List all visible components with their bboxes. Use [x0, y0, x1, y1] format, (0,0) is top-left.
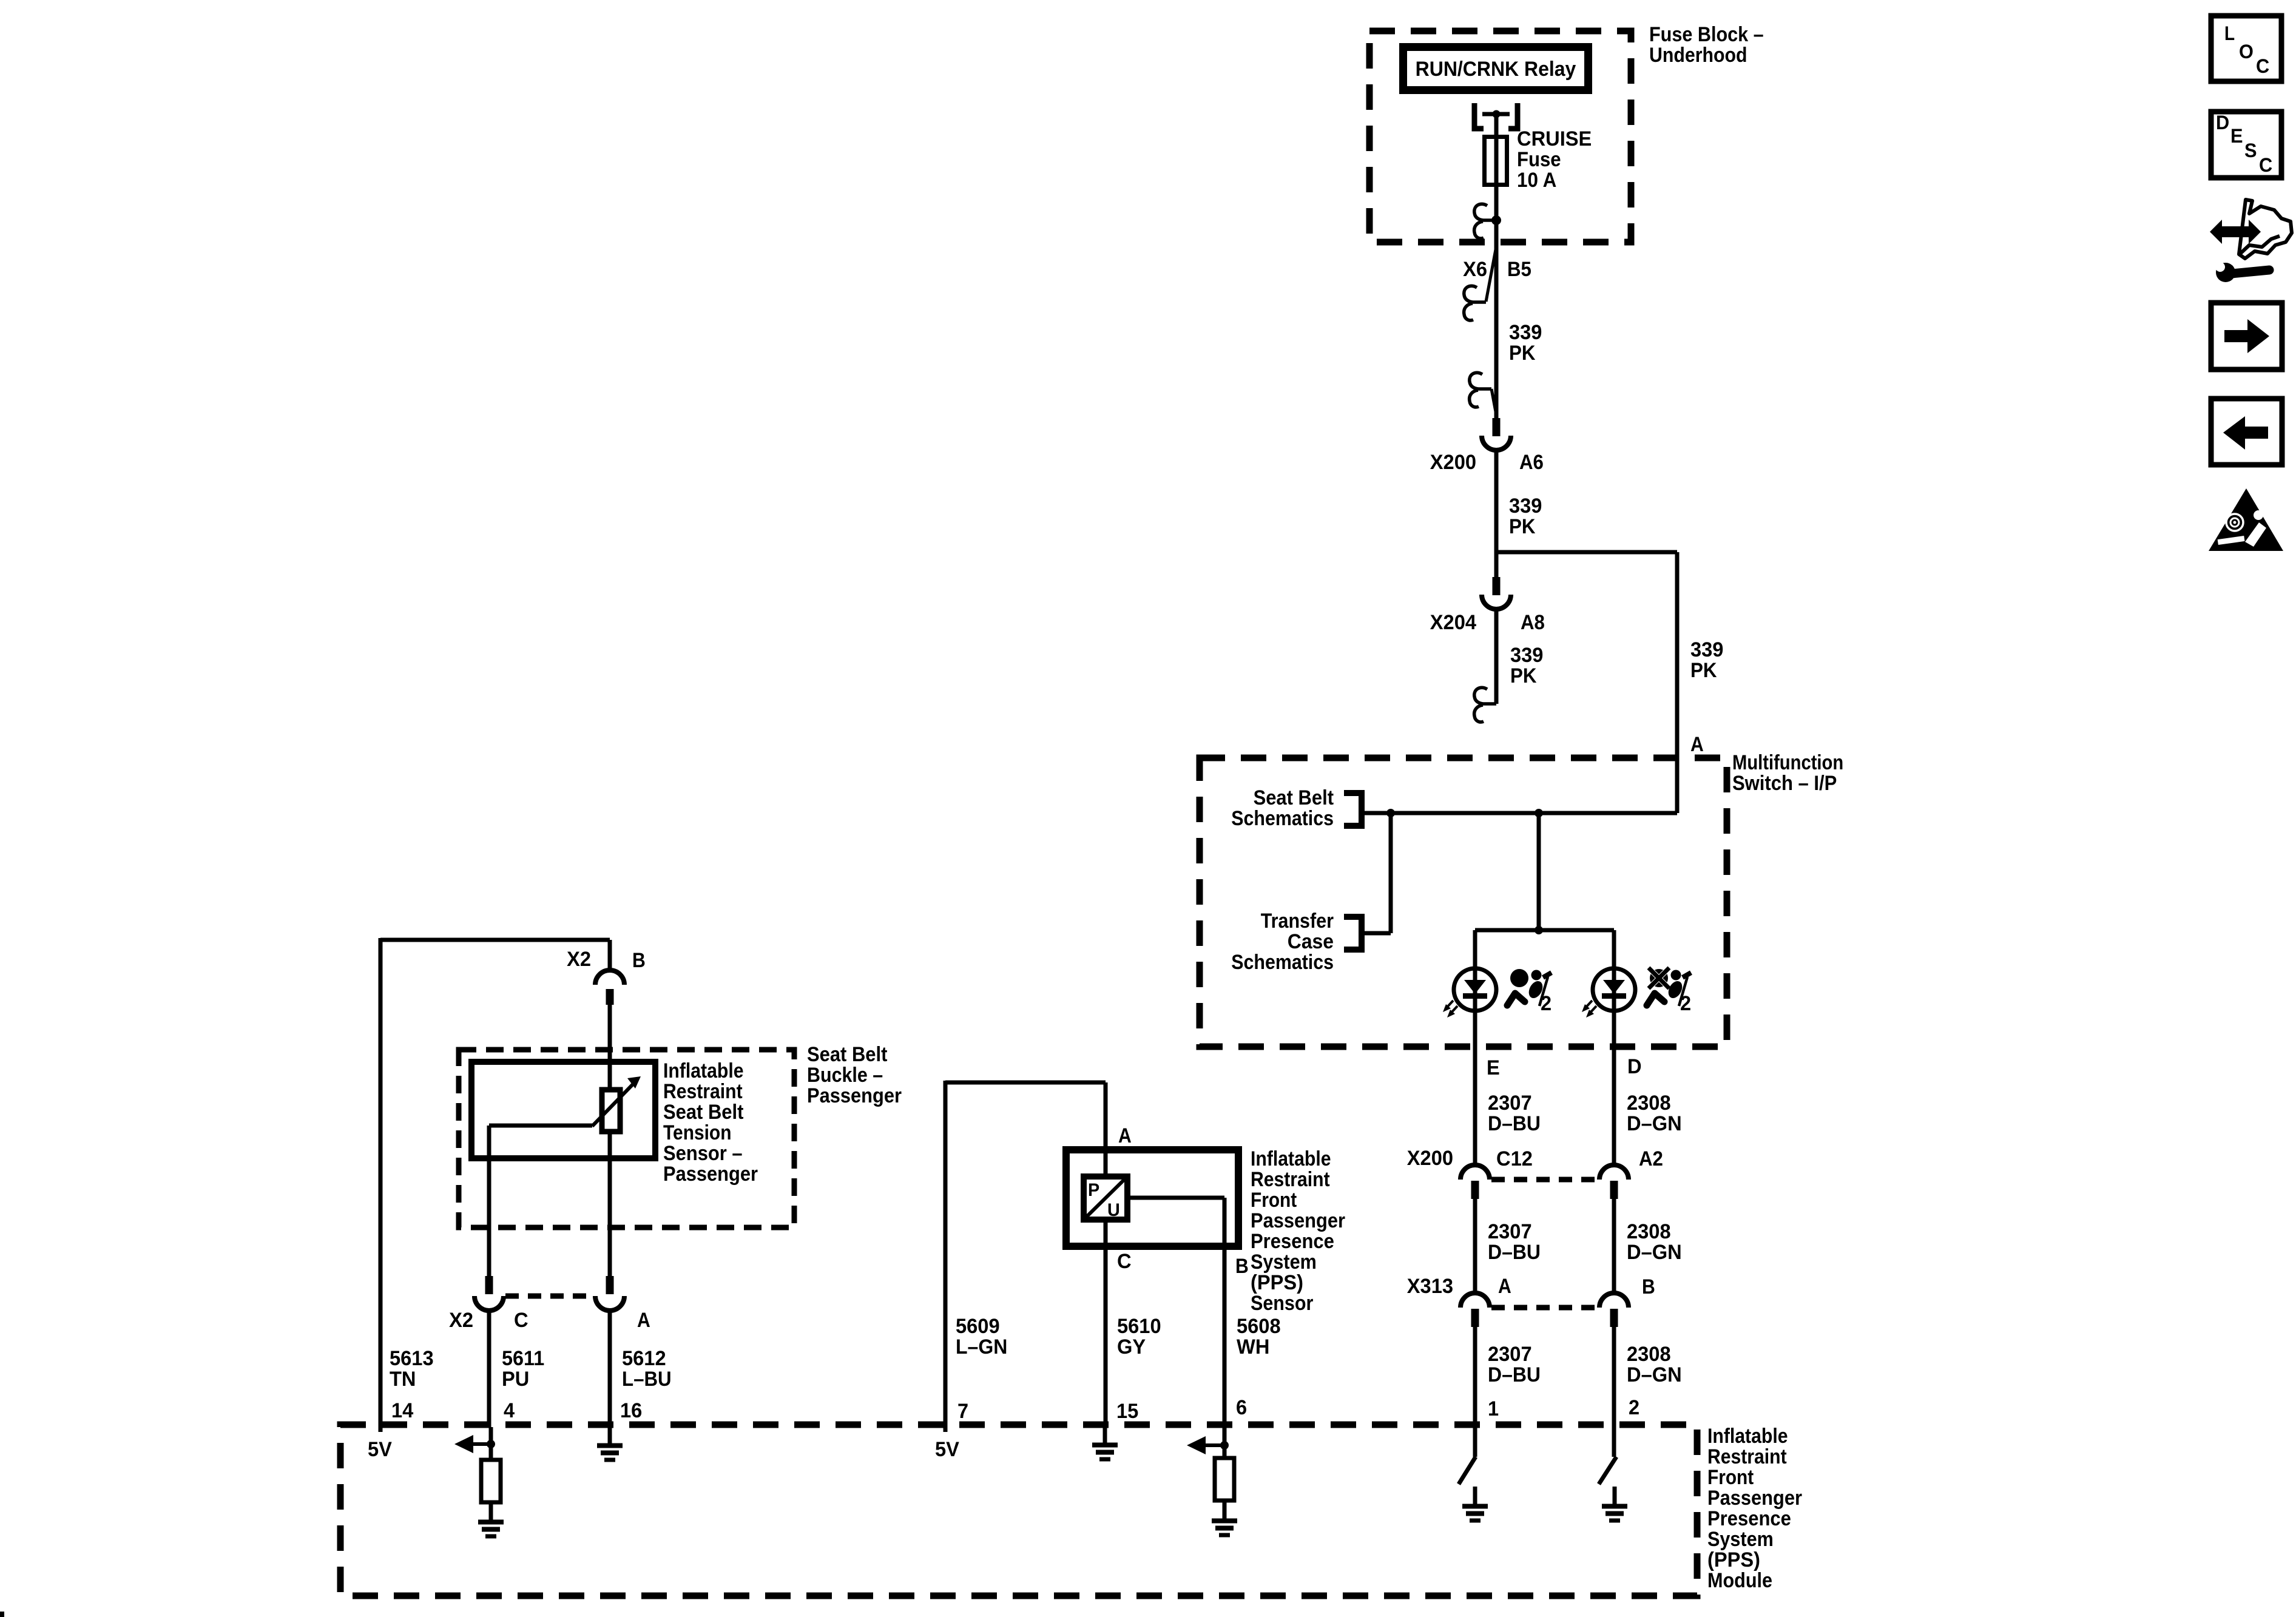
svg-text:339: 339 [1509, 495, 1542, 518]
svg-text:System: System [1707, 1528, 1774, 1551]
svg-text:A6: A6 [1519, 451, 1544, 474]
svg-text:Sensor –: Sensor – [663, 1142, 743, 1165]
svg-text:B: B [632, 949, 646, 972]
svg-text:339: 339 [1509, 321, 1542, 344]
wire to LED 2 [1612, 930, 1616, 1166]
svg-text:E: E [1487, 1056, 1500, 1079]
fuse block - underhood box [1369, 23, 1764, 242]
svg-text:PK: PK [1690, 659, 1717, 682]
ground pin 4 branch [478, 1502, 504, 1536]
svg-text:Seat Belt: Seat Belt [1254, 786, 1334, 809]
svg-text:Front: Front [1707, 1466, 1754, 1489]
svg-text:Transfer: Transfer [1261, 910, 1334, 933]
wire 5609 L-GN loop [945, 1081, 1106, 1427]
svg-text:5608: 5608 [1237, 1315, 1281, 1338]
node pin 6 junction with arrow [1187, 1427, 1229, 1458]
svg-text:Tension: Tension [663, 1121, 732, 1144]
airbag off icon [1647, 968, 1691, 1015]
svg-text:1: 1 [1488, 1397, 1499, 1420]
connector X313 link [1491, 1305, 1598, 1311]
svg-text:C: C [514, 1309, 528, 1332]
svg-text:5609: 5609 [956, 1315, 1000, 1338]
svg-text:X6: X6 [1463, 258, 1487, 281]
wire relay to fuse [1494, 115, 1499, 136]
svg-text:14: 14 [391, 1399, 413, 1422]
svg-text:Passenger: Passenger [1707, 1487, 1802, 1510]
svg-text:L: L [2224, 22, 2235, 44]
pressure transducer P/U [1084, 1176, 1127, 1220]
svg-text:10 A: 10 A [1517, 169, 1556, 192]
svg-text:X2: X2 [567, 948, 591, 971]
svg-text:D–BU: D–BU [1488, 1241, 1541, 1264]
svg-text:2308: 2308 [1627, 1092, 1671, 1115]
wire 5610 GY [1106, 1220, 1161, 1427]
inflatable restraint seat belt tension sensor - passenger box [471, 1059, 758, 1186]
svg-text:L–BU: L–BU [622, 1368, 672, 1391]
svg-text:A8: A8 [1521, 611, 1545, 634]
svg-text:2: 2 [1541, 992, 1551, 1015]
in-line connector X2 pin B [567, 948, 646, 1005]
pin label B pps sensor [1235, 1255, 1249, 1278]
pin label 2 [1629, 1396, 1639, 1419]
clip terminal above X200 [1470, 373, 1497, 418]
svg-text:5613: 5613 [390, 1347, 434, 1370]
svg-text:RUN/CRNK Relay: RUN/CRNK Relay [1416, 58, 1576, 81]
arrow left icon [2211, 399, 2282, 465]
svg-text:D–GN: D–GN [1627, 1363, 1682, 1386]
svg-text:15: 15 [1116, 1400, 1138, 1423]
svg-text:5612: 5612 [622, 1347, 666, 1370]
svg-text:D–GN: D–GN [1627, 1112, 1682, 1135]
pin label 7 [957, 1400, 968, 1423]
relay RUN/CRNK Relay [1403, 47, 1589, 90]
svg-text:O: O [2239, 41, 2254, 62]
svg-text:Case: Case [1288, 930, 1334, 953]
svg-text:Seat Belt: Seat Belt [663, 1101, 743, 1124]
pin label A multifunction switch [1690, 733, 1704, 756]
svg-text:D: D [1627, 1055, 1642, 1078]
svg-text:Buckle –: Buckle – [807, 1064, 883, 1087]
svg-text:2308: 2308 [1627, 1220, 1671, 1243]
page artifact dot [0, 1612, 4, 1617]
svg-text:B5: B5 [1507, 258, 1531, 281]
svg-text:C: C [2259, 154, 2272, 176]
pin label 4 [504, 1399, 515, 1422]
pin label 6 [1236, 1396, 1247, 1419]
svg-text:Inflatable: Inflatable [1707, 1425, 1788, 1448]
svg-text:Presence: Presence [1707, 1507, 1791, 1530]
svg-text:PU: PU [502, 1368, 529, 1391]
svg-text:D–GN: D–GN [1627, 1241, 1682, 1264]
wire 5613 TN loop [380, 938, 610, 1427]
svg-text:PK: PK [1510, 664, 1537, 687]
pin label D [1627, 1055, 1642, 1078]
resistor pin 4 pull [481, 1460, 501, 1520]
connector X200 link [1491, 1177, 1598, 1183]
wire 2307 D-BU segment 2 [1475, 1199, 1541, 1294]
svg-text:TN: TN [390, 1368, 416, 1391]
svg-text:B: B [1642, 1275, 1655, 1298]
relay terminal bracket [1474, 103, 1518, 129]
svg-text:A: A [1498, 1275, 1511, 1298]
svg-text:Sensor: Sensor [1251, 1292, 1313, 1315]
wire 5611 PU [489, 1309, 544, 1427]
svg-text:E: E [2230, 125, 2243, 147]
svg-text:PK: PK [1509, 515, 1536, 538]
svg-text:6: 6 [1236, 1396, 1247, 1419]
node branch to multifunction switch [1496, 550, 1677, 555]
switch contact pin 2 [1599, 1457, 1616, 1484]
airbag on icon [1507, 969, 1551, 1015]
svg-text:PK: PK [1509, 342, 1536, 365]
in-line connector X313 pin A [1407, 1275, 1511, 1327]
transfer case schematics bracket [1231, 910, 1362, 974]
pin label 1 [1488, 1397, 1499, 1420]
svg-text:D–BU: D–BU [1488, 1112, 1541, 1135]
svg-text:S: S [2244, 140, 2257, 161]
wire fuse to fuse block exit [1494, 187, 1499, 245]
svg-text:X204: X204 [1430, 611, 1476, 634]
pin label 16 [620, 1399, 642, 1422]
fuse CRUISE Fuse 10 A [1485, 127, 1592, 192]
svg-text:A2: A2 [1639, 1147, 1663, 1170]
svg-text:X313: X313 [1407, 1275, 1453, 1298]
svg-text:C: C [1117, 1250, 1132, 1273]
ground pin 15 branch [1092, 1425, 1118, 1459]
pin label A pps sensor [1118, 1124, 1132, 1147]
svg-text:Restraint: Restraint [1707, 1445, 1787, 1468]
wire to LED 1 [1473, 930, 1477, 1166]
clip terminal wire end [1474, 687, 1496, 722]
ground pin 1 branch [1462, 1487, 1488, 1521]
wire sensor internal [489, 1126, 592, 1276]
svg-text:System: System [1251, 1251, 1317, 1274]
svg-text:Fuse Block –: Fuse Block – [1649, 23, 1764, 46]
ground pin 16 branch [597, 1426, 623, 1460]
svg-text:A: A [637, 1309, 650, 1332]
net 5V pin 7 [935, 1425, 959, 1461]
wire 5609 L-GN label [956, 1315, 1007, 1359]
svg-text:X200: X200 [1407, 1147, 1453, 1170]
inflatable restraint front passenger presence system sensor box [1066, 1147, 1345, 1315]
svg-text:Schematics: Schematics [1231, 951, 1334, 974]
pin label 14 [391, 1399, 413, 1422]
clip terminal inside fuse block [1474, 204, 1501, 238]
svg-text:2307: 2307 [1488, 1092, 1532, 1115]
in-line connector X200 pin A2 [1599, 1147, 1663, 1199]
net 5V pin 14 [368, 1425, 392, 1461]
svg-text:Switch – I/P: Switch – I/P [1732, 772, 1837, 795]
arrow right icon [2211, 303, 2282, 370]
svg-text:B: B [1235, 1255, 1249, 1278]
wire 5608 WH label [1237, 1315, 1281, 1359]
node pin 4 junction with arrow [454, 1427, 495, 1460]
svg-text:CRUISE: CRUISE [1517, 127, 1592, 150]
svg-text:Inflatable: Inflatable [1251, 1147, 1331, 1170]
seat belt buckle - passenger box [459, 1043, 902, 1227]
wire 5612 lower [608, 1132, 612, 1276]
in-line connector X2 pin C [449, 1276, 528, 1332]
connector X6 pin B5 [1463, 246, 1531, 320]
svg-text:Underhood: Underhood [1649, 44, 1747, 67]
wire 2308 D-GN segment 1 [1627, 1092, 1682, 1135]
svg-text:16: 16 [620, 1399, 642, 1422]
multifunction switch - I/P box [1200, 751, 1843, 1047]
ground pin 2 branch [1602, 1487, 1627, 1521]
wire 339 PK segment 3 (stub) [1496, 613, 1543, 704]
wire 339 PK right branch [1677, 552, 1723, 813]
svg-text:5610: 5610 [1117, 1315, 1161, 1338]
svg-text:(PPS): (PPS) [1251, 1271, 1303, 1294]
svg-text:7: 7 [957, 1400, 968, 1423]
svg-text:Restraint: Restraint [663, 1080, 743, 1103]
svg-text:2: 2 [1629, 1396, 1639, 1419]
wire 5612 L-BU [610, 1309, 672, 1427]
svg-text:Passenger: Passenger [663, 1163, 758, 1186]
svg-text:2307: 2307 [1488, 1220, 1532, 1243]
wire 2308 D-GN segment 3 [1614, 1327, 1682, 1457]
svg-text:X200: X200 [1430, 451, 1476, 474]
wire down to X204 [1494, 552, 1499, 577]
wire lamp bus [1475, 926, 1614, 934]
pin label 15 [1116, 1400, 1138, 1423]
svg-text:(PPS): (PPS) [1707, 1548, 1760, 1571]
ground pin 6 branch [1212, 1501, 1237, 1535]
variable resistor seat belt tension sensor [592, 1076, 641, 1132]
svg-text:Passenger: Passenger [807, 1084, 902, 1107]
svg-text:Front: Front [1251, 1189, 1297, 1212]
in-line connector X2 pin A [595, 1276, 650, 1332]
svg-text:339: 339 [1690, 638, 1723, 661]
svg-text:Restraint: Restraint [1251, 1168, 1330, 1191]
svg-text:A: A [1690, 733, 1704, 756]
in-line connector X204 pin A8 [1430, 577, 1545, 634]
wire buckle feed [608, 1003, 612, 1090]
svg-text:5V: 5V [935, 1438, 959, 1461]
svg-text:5611: 5611 [502, 1347, 544, 1370]
switch contact pin 1 [1459, 1457, 1476, 1484]
node junction seat belt feed [1362, 809, 1395, 933]
inflatable restraint front passenger presence system module box [340, 1425, 1802, 1596]
LED indicator 2 [1582, 968, 1635, 1018]
svg-text:Multifunction: Multifunction [1732, 751, 1843, 774]
LED indicator 1 [1443, 968, 1496, 1018]
in-line connector X313 pin B [1599, 1275, 1655, 1327]
svg-text:L–GN: L–GN [956, 1335, 1007, 1359]
svg-text:C12: C12 [1496, 1147, 1533, 1170]
svg-text:2: 2 [1680, 992, 1691, 1015]
svg-text:339: 339 [1510, 644, 1543, 667]
wire 5613 TN label [390, 1347, 434, 1391]
svg-text:D: D [2216, 112, 2229, 133]
svg-text:Presence: Presence [1251, 1230, 1334, 1253]
wire 339 PK segment 1 [1496, 245, 1542, 418]
svg-text:Seat Belt: Seat Belt [807, 1043, 887, 1066]
svg-text:WH: WH [1237, 1335, 1269, 1359]
wire 2307 D-BU segment 3 [1475, 1327, 1541, 1457]
svg-text:X2: X2 [449, 1309, 473, 1332]
svg-text:C: C [2256, 55, 2269, 77]
resistor pin 6 pull [1215, 1458, 1234, 1519]
airbag warning triangle icon [2209, 488, 2283, 551]
svg-text:Passenger: Passenger [1251, 1209, 1345, 1232]
svg-text:2307: 2307 [1488, 1343, 1532, 1366]
wire pps sensor B loop [1127, 1198, 1224, 1427]
svg-text:4: 4 [504, 1399, 515, 1422]
svg-text:Module: Module [1707, 1569, 1772, 1592]
svg-text:P: P [1088, 1180, 1099, 1200]
svg-text:U: U [1107, 1200, 1120, 1220]
wire 339 PK segment 2 [1496, 454, 1542, 552]
svg-text:Inflatable: Inflatable [663, 1059, 744, 1082]
svg-text:GY: GY [1117, 1335, 1146, 1359]
in-line connector X200 pin A6 [1430, 418, 1544, 474]
svg-text:2308: 2308 [1627, 1343, 1671, 1366]
seat belt schematics bracket [1231, 786, 1362, 830]
svg-text:Schematics: Schematics [1231, 807, 1334, 830]
LOC icon [2211, 16, 2281, 81]
svg-text:D–BU: D–BU [1488, 1363, 1541, 1386]
svg-text:5V: 5V [368, 1438, 392, 1461]
svg-text:A: A [1118, 1124, 1132, 1147]
connector X2 link [505, 1294, 593, 1299]
wire 2307 D-BU segment 1 [1488, 1092, 1541, 1135]
pin label E [1487, 1056, 1500, 1079]
node junction lamp feed [1535, 809, 1543, 930]
DESC icon [2211, 112, 2281, 178]
wire internal bus [1362, 811, 1677, 815]
pin label C pps sensor [1117, 1250, 1132, 1273]
wire 2308 D-GN segment 2 [1614, 1199, 1682, 1294]
navigation hand and wrench icon [2210, 200, 2292, 282]
in-line connector X200 pin C12 [1407, 1147, 1533, 1199]
svg-text:Fuse: Fuse [1517, 148, 1561, 171]
